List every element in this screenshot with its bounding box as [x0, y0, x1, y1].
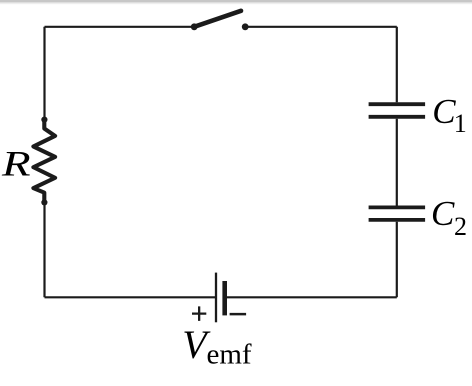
switch S1 blade — [194, 11, 241, 27]
battery V_emf short (-) plate — [222, 281, 227, 315]
node: resistor top junction dot — [41, 117, 47, 123]
label - polarity — [230, 313, 247, 316]
switch S1 right contact dot — [242, 23, 249, 30]
svg-text:2: 2 — [454, 212, 467, 241]
svg-text:emf: emf — [207, 339, 252, 371]
capacitor C2 bottom plate — [369, 218, 426, 222]
svg-text:R: R — [1, 144, 31, 184]
resistor R zigzag — [33, 121, 55, 201]
top gray bar — [0, 0, 472, 2]
label + polarity — [192, 306, 206, 321]
svg-text:C: C — [432, 92, 456, 131]
wire: right vertical lower — [396, 222, 398, 297]
wire: bottom right horizontal — [225, 296, 397, 298]
wire: left vertical lower — [43, 193, 45, 297]
wire: left vertical upper — [43, 27, 45, 130]
battery V_emf long (+) plate — [215, 273, 217, 323]
switch S1 left contact dot — [191, 23, 198, 30]
node: resistor bottom junction dot — [41, 199, 47, 205]
capacitor C1 top plate — [369, 102, 426, 106]
capacitor C2 top plate — [369, 205, 426, 209]
wire: right vertical middle — [396, 119, 398, 206]
wire: right vertical upper — [396, 27, 398, 103]
capacitor C1 bottom plate — [369, 115, 426, 119]
wire: top-right horizontal — [245, 26, 397, 28]
svg-text:C: C — [431, 194, 455, 233]
wire: bottom left horizontal — [45, 296, 217, 298]
wire: top-left horizontal — [45, 26, 195, 28]
svg-text:1: 1 — [454, 109, 467, 138]
